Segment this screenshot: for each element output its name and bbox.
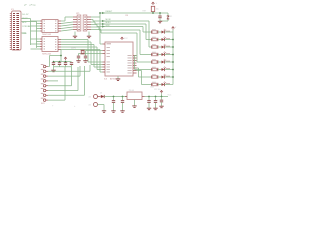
wire cap row ground rail xyxy=(54,67,72,70)
IC IC1 buffer 74HC244 upper xyxy=(40,20,61,37)
title text xyxy=(24,3,36,6)
LED LED2 xyxy=(162,37,174,42)
capacitor C2 xyxy=(58,61,61,67)
VCC at IC3 xyxy=(121,37,129,40)
LED LED3 xyxy=(162,44,174,49)
switch S1 reset xyxy=(160,13,172,21)
ground at C12 xyxy=(159,106,163,108)
capacitor C3 xyxy=(64,62,67,67)
wire 5V rail xyxy=(145,95,172,97)
capacitor C5 xyxy=(76,56,80,63)
wire XTAL2 xyxy=(79,54,103,56)
connector SV1 pins xyxy=(41,64,48,105)
svg-text:100n: 100n xyxy=(150,86,154,88)
ground at IC4 xyxy=(132,106,136,108)
net labels at connector xyxy=(22,14,31,35)
ground at C10 xyxy=(147,108,151,110)
wire MISO xyxy=(91,22,146,40)
wires IC1 outputs to header JP1 xyxy=(61,17,73,31)
wire LED row4 feed xyxy=(91,27,140,55)
capacitor C9 xyxy=(121,96,124,111)
LED LED4 xyxy=(162,52,174,57)
ground at X2 xyxy=(102,111,106,113)
wire LED row5 feed xyxy=(91,30,137,63)
capacitor C6 xyxy=(83,56,87,63)
wire SCK xyxy=(91,25,143,33)
IC IC4 voltage regulator 78L05 xyxy=(125,90,145,105)
svg-text:STROBE: STROBE xyxy=(22,26,31,28)
ground at JP1 right xyxy=(87,32,91,38)
ground at JP1 left xyxy=(73,32,77,38)
resistor R2 xyxy=(146,37,162,41)
svg-text:C12 10u: C12 10u xyxy=(154,89,161,91)
diode D1 xyxy=(100,93,127,99)
capacitor C8 xyxy=(112,96,115,111)
wire LED row6 feed xyxy=(135,56,137,70)
svg-text:74HC244: 74HC244 xyxy=(42,34,52,36)
svg-text:D1: D1 xyxy=(100,93,102,95)
IC IC3 microcontroller AT90S1200 xyxy=(103,42,137,80)
VCC at cap row xyxy=(64,57,67,62)
net label RESET xyxy=(102,11,113,14)
svg-text:RESET: RESET xyxy=(106,11,113,13)
capacitor C4 xyxy=(70,62,73,67)
wire XTAL1 xyxy=(86,51,103,56)
connector JP1 header 2x6 xyxy=(73,13,91,31)
resistor R9 reset pullup xyxy=(151,6,158,14)
wire bus IC2 to IC3 xyxy=(61,40,103,73)
wires SV1 to bus xyxy=(48,56,90,101)
wire LED row8 feed xyxy=(137,71,142,85)
capacitor C11 xyxy=(154,96,157,108)
LED LED6 xyxy=(162,67,174,72)
capacitor C10 xyxy=(147,96,150,108)
capacitor C7 reset xyxy=(158,12,161,21)
connector X1 (DB25 parallel port) xyxy=(10,9,21,50)
wire bus connector to buffers xyxy=(22,19,41,50)
pad X2-1 power input xyxy=(89,95,101,99)
resistor R1 xyxy=(143,29,162,33)
resistor R7 xyxy=(139,74,162,78)
svg-text:10k: 10k xyxy=(156,9,159,11)
ground at reset xyxy=(158,21,162,23)
svg-text:µProg: µProg xyxy=(30,3,37,6)
pad X2-2 power input xyxy=(89,103,105,111)
crystal Q1 xyxy=(71,48,85,54)
ground at C9 xyxy=(120,111,124,113)
svg-text:X2: X2 xyxy=(89,96,91,98)
svg-text:SV1: SV1 xyxy=(41,103,45,105)
VCC at LED rail xyxy=(172,27,177,30)
resistor R5 xyxy=(137,59,162,63)
svg-text:D0..D7: D0..D7 xyxy=(22,14,29,16)
capacitor C12 xyxy=(157,97,163,106)
LED LED5 xyxy=(162,59,174,64)
svg-text:4MHz: 4MHz xyxy=(71,48,76,50)
wire VCC feed to caps xyxy=(50,50,72,62)
VCC at 5V rail xyxy=(160,90,163,97)
svg-text:X2: X2 xyxy=(89,104,91,106)
ground at C8 xyxy=(111,111,115,113)
LED LED1 xyxy=(162,29,174,34)
resistor R8 xyxy=(142,82,162,86)
svg-text:S1: S1 xyxy=(170,16,172,18)
svg-text:MISO: MISO xyxy=(106,22,112,24)
resistor R6 xyxy=(135,67,162,71)
wire LED row7 feed xyxy=(137,68,139,77)
resistor R4 xyxy=(140,52,162,56)
LED LED7 xyxy=(162,74,174,79)
VCC at reset pullup xyxy=(152,2,158,5)
resistor R3 xyxy=(149,44,162,48)
wire RESET net xyxy=(91,12,168,44)
svg-text:R9: R9 xyxy=(126,15,128,17)
wire LED supply rail xyxy=(172,30,174,85)
LED LED8 xyxy=(162,82,174,87)
svg-text:SCK: SCK xyxy=(106,25,111,27)
capacitor C1 xyxy=(52,61,55,67)
ground at C11 xyxy=(153,108,157,110)
ground at IC3 xyxy=(116,76,120,81)
wire MOSI xyxy=(91,19,149,47)
svg-text:MOSI: MOSI xyxy=(106,19,112,21)
IC IC2 buffer 74HC244 lower xyxy=(40,37,61,56)
ground at cap row xyxy=(51,70,55,72)
